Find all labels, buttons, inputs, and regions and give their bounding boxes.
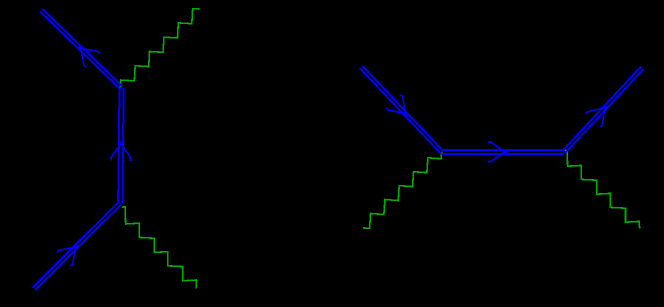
arrowhead on f2 [111,141,131,161]
vertex C (right diagram, left) [441,151,443,153]
photon ph3 (incoming, lower left) [363,151,442,228]
photon ph4 (outgoing, lower right) [564,150,640,229]
fermion line f1 (incoming electron, lower left) [33,202,121,290]
fermion propagator f5 (internal, horizontal) [442,150,564,154]
arrowhead on f1 [57,246,78,266]
fermion propagator f2 (internal, vertical) [118,88,124,203]
fermion line f3 (outgoing electron, upper left) [40,9,123,89]
arrowhead on f5 [488,142,508,162]
fermion line f6 (outgoing electron, upper right) [563,67,644,153]
photon ph2 (outgoing, lower right) [122,207,196,289]
photon ph1 (outgoing, upper right) [120,9,199,88]
fermion line f4 (incoming electron, upper left) [360,66,443,153]
vertex D (right diagram, right) [563,151,565,153]
arrowhead on f4 [387,95,407,116]
arrowhead on f3 [79,46,99,67]
vertex A (left diagram, lower) [119,202,121,204]
arrowhead on f6 [586,106,607,127]
vertex B (left diagram, upper) [120,87,122,89]
